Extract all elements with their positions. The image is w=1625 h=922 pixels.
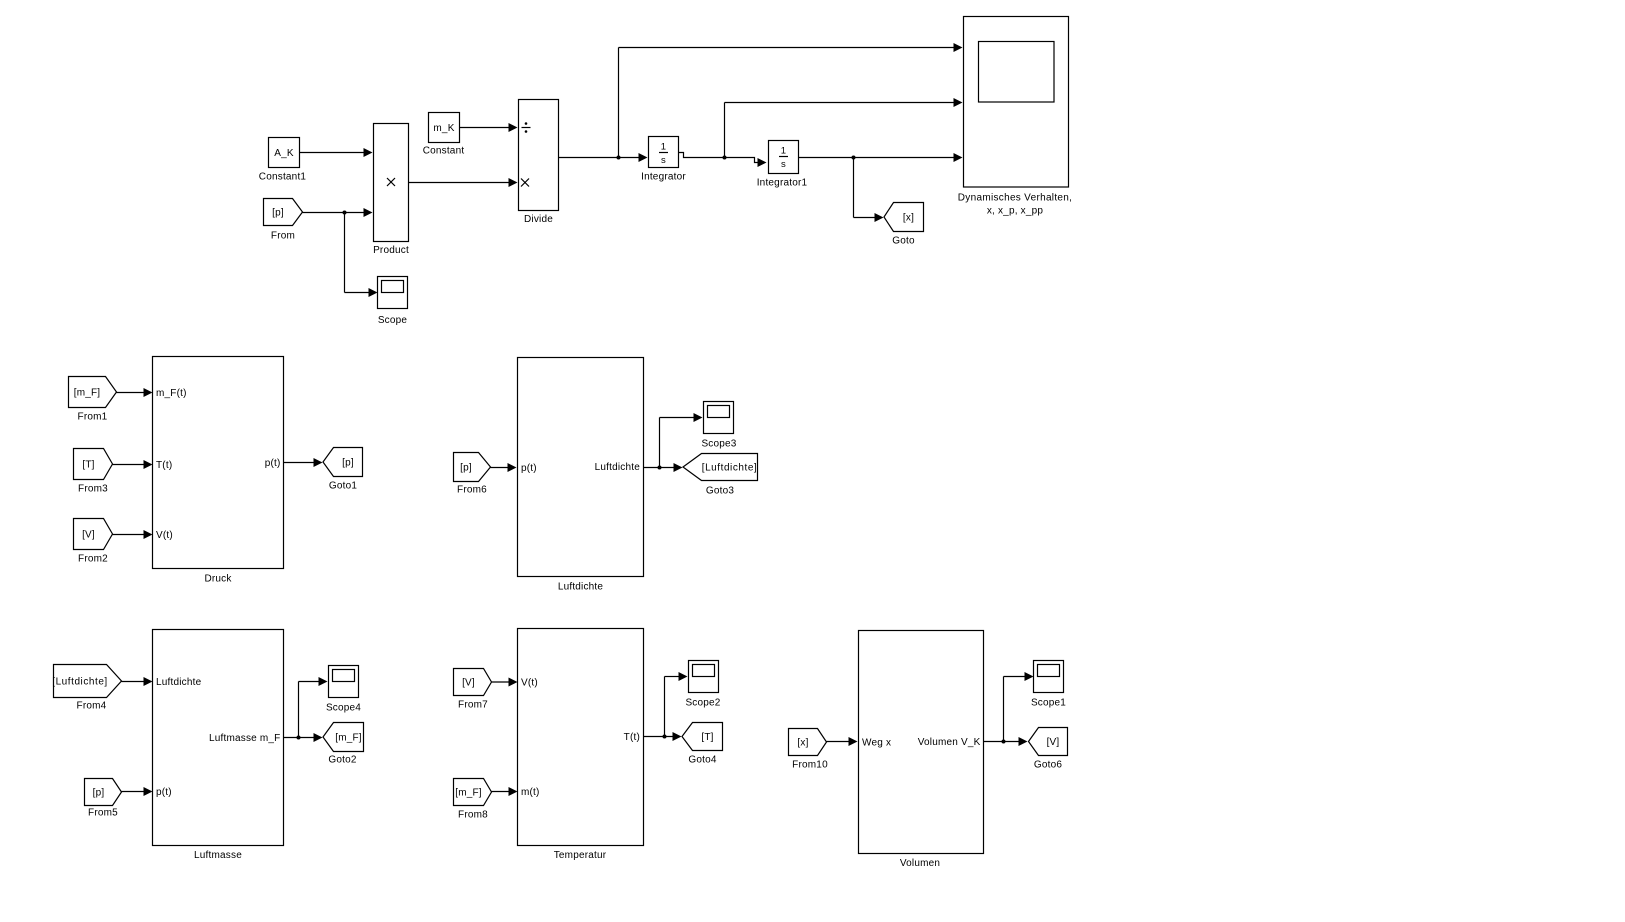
- svg-text:From6: From6: [457, 485, 487, 496]
- Scope block Scope1: [1031, 661, 1066, 709]
- wire From5 to Luftmasse p(t): [122, 787, 153, 796]
- svg-text:Luftmasse: Luftmasse: [194, 850, 242, 861]
- svg-text:[Luftdichte]: [Luftdichte]: [702, 463, 758, 474]
- svg-text:[p]: [p]: [272, 208, 284, 219]
- Integrator1 block (1/s): [757, 141, 808, 189]
- wire Constant1 to Product input 1: [300, 148, 373, 157]
- Product block: [373, 124, 409, 257]
- svg-text:m_K: m_K: [433, 123, 454, 134]
- junction after Integrator: [723, 156, 727, 160]
- svg-text:Constant1: Constant1: [259, 172, 307, 183]
- wire From4 to Luftmasse Luftdichte: [122, 677, 153, 686]
- Integrator block (1/s): [641, 137, 686, 183]
- svg-text:p(t): p(t): [521, 463, 537, 474]
- Goto tag Goto2 ([m_F]): [323, 723, 364, 766]
- From tag From2 ([V]): [74, 519, 113, 565]
- Scope block Scope4: [326, 666, 361, 714]
- Goto tag Goto6 ([V]): [1029, 728, 1068, 771]
- svg-text:s: s: [661, 155, 666, 166]
- svg-text:Luftdichte: Luftdichte: [558, 582, 604, 593]
- svg-text:[m_F]: [m_F]: [335, 733, 362, 744]
- wire junction up to Scope1: [1004, 672, 1034, 742]
- svg-text:Luftdichte: Luftdichte: [595, 462, 641, 473]
- From tag From3 ([T]): [74, 449, 113, 495]
- svg-text:Goto6: Goto6: [1034, 760, 1062, 771]
- svg-text:Weg x: Weg x: [862, 738, 891, 749]
- svg-text:[x]: [x]: [903, 213, 914, 224]
- svg-text:[p]: [p]: [93, 788, 105, 799]
- svg-text:[T]: [T]: [82, 460, 94, 471]
- svg-text:From3: From3: [78, 484, 108, 495]
- Goto tag Goto1 ([p]): [323, 448, 363, 492]
- big Scope block Dynamisches Verhalten: [958, 17, 1072, 217]
- svg-text:m(t): m(t): [521, 787, 540, 798]
- junction after Volumen: [1002, 740, 1006, 744]
- svg-text:Goto2: Goto2: [328, 755, 356, 766]
- Constant1 block (A_K): [259, 138, 307, 183]
- junction after Divide: [617, 156, 621, 160]
- subsystem block Druck: [153, 357, 284, 585]
- svg-text:Volumen V_K: Volumen V_K: [918, 737, 981, 748]
- svg-text:[T]: [T]: [701, 732, 713, 743]
- wire junction up to Scope3: [660, 413, 703, 468]
- subsystem block Volumen: [859, 631, 984, 870]
- Goto tag Goto ([x]): [884, 203, 924, 247]
- svg-text:From1: From1: [78, 412, 108, 423]
- wire From2 to Druck V(t): [113, 530, 153, 539]
- wire From8 to Temperatur m(t): [492, 787, 518, 796]
- wire From10 to Volumen Weg x: [827, 737, 858, 746]
- svg-text:[p]: [p]: [342, 458, 354, 469]
- svg-text:p(t): p(t): [265, 458, 281, 469]
- junction after Luftmasse: [297, 736, 301, 740]
- From tag From4 ([Luftdichte]): [52, 665, 121, 712]
- wire junction down to Goto: [854, 158, 884, 223]
- svg-text:From5: From5: [88, 808, 118, 819]
- svg-text:s: s: [781, 159, 786, 170]
- wire junction up to Scope4: [299, 677, 328, 738]
- Goto tag Goto4 ([T]): [682, 723, 723, 766]
- Constant block (m_K): [423, 113, 465, 157]
- svg-text:Scope4: Scope4: [326, 703, 361, 714]
- svg-text:Dynamisches Verhalten,: Dynamisches Verhalten,: [958, 193, 1072, 204]
- svg-text:Integrator: Integrator: [641, 172, 686, 183]
- wire Temperatur output to Goto4: [644, 732, 682, 741]
- svg-text:Luftmasse m_F: Luftmasse m_F: [209, 733, 281, 744]
- Scope block Scope: [378, 277, 408, 327]
- svg-text:[V]: [V]: [82, 530, 95, 541]
- svg-text:From: From: [271, 231, 295, 242]
- svg-text:Scope3: Scope3: [701, 439, 736, 450]
- Scope block Scope3: [701, 402, 736, 450]
- svg-text:[V]: [V]: [1047, 737, 1060, 748]
- wire Luftmasse output to Goto2: [284, 733, 323, 742]
- From tag From8 ([m_F]): [454, 779, 492, 821]
- svg-text:From7: From7: [458, 700, 488, 711]
- From tag From ([p]): [264, 199, 303, 242]
- wire From1 to Druck m_F(t): [117, 388, 153, 397]
- From tag From5 ([p]): [85, 779, 122, 819]
- Divide block: [519, 100, 559, 226]
- svg-text:[p]: [p]: [460, 463, 472, 474]
- subsystem block Luftdichte: [518, 358, 644, 593]
- svg-text:Druck: Druck: [204, 574, 232, 585]
- junction after Luftdichte: [658, 466, 662, 470]
- svg-text:p(t): p(t): [156, 787, 172, 798]
- svg-text:Goto: Goto: [892, 236, 915, 247]
- wire Integrator output to Integrator1: [679, 153, 767, 168]
- svg-text:Luftdichte: Luftdichte: [156, 677, 202, 688]
- wire From [p] to Product input 2: [303, 208, 373, 217]
- svg-text:Scope2: Scope2: [685, 698, 720, 709]
- wire From7 to Temperatur V(t): [492, 678, 518, 687]
- svg-text:Temperatur: Temperatur: [554, 850, 607, 861]
- svg-text:From8: From8: [458, 810, 488, 821]
- junction after Integrator1: [852, 156, 856, 160]
- svg-text:Goto1: Goto1: [329, 481, 357, 492]
- Scope block Scope2: [685, 661, 720, 709]
- wire Product output to Divide input: [409, 178, 518, 187]
- svg-text:Integrator1: Integrator1: [757, 178, 808, 189]
- svg-text:From4: From4: [77, 701, 107, 712]
- svg-text:Volumen: Volumen: [900, 858, 940, 869]
- svg-text:Goto4: Goto4: [688, 755, 716, 766]
- svg-text:[x]: [x]: [797, 738, 808, 749]
- subsystem block Temperatur: [518, 629, 644, 862]
- wire junction up to big scope input 2: [725, 98, 963, 158]
- svg-text:[m_F]: [m_F]: [455, 788, 482, 799]
- svg-text:m_F(t): m_F(t): [156, 388, 187, 399]
- wire Druck p(t) to Goto1: [284, 458, 323, 467]
- svg-text:Scope1: Scope1: [1031, 698, 1066, 709]
- svg-text:T(t): T(t): [624, 732, 640, 743]
- wire From6 to Luftdichte p(t): [491, 463, 517, 472]
- svg-text:1: 1: [661, 142, 666, 153]
- svg-text:V(t): V(t): [521, 678, 538, 689]
- svg-text:[V]: [V]: [462, 678, 475, 689]
- svg-text:Constant: Constant: [423, 146, 465, 157]
- svg-text:Divide: Divide: [524, 214, 553, 225]
- junction after Temperatur: [663, 735, 667, 739]
- wire Integrator1 output to big scope input 3: [799, 153, 963, 162]
- subsystem block Luftmasse: [153, 630, 284, 862]
- wire Divide output to Integrator: [559, 153, 648, 162]
- svg-text:[Luftdichte]: [Luftdichte]: [52, 677, 108, 688]
- svg-text:[m_F]: [m_F]: [74, 388, 101, 399]
- From tag From10 ([x]): [789, 729, 829, 771]
- svg-text:Product: Product: [373, 245, 409, 256]
- svg-text:A_K: A_K: [274, 148, 294, 159]
- Goto tag Goto3 ([Luftdichte]): [683, 454, 758, 497]
- svg-text:V(t): V(t): [156, 530, 173, 541]
- From tag From7 ([V]): [454, 669, 492, 711]
- wire junction up to big scope input 1: [619, 43, 963, 158]
- wire Constant to Divide divisor input: [460, 123, 518, 132]
- svg-text:x, x_p, x_pp: x, x_p, x_pp: [987, 205, 1044, 216]
- wire From3 to Druck T(t): [113, 460, 153, 469]
- wire junction up to Scope2: [665, 672, 688, 737]
- svg-text:From2: From2: [78, 554, 108, 565]
- svg-text:From10: From10: [792, 760, 828, 771]
- svg-text:T(t): T(t): [156, 460, 172, 471]
- From tag From6 ([p]): [454, 453, 491, 496]
- wire junction down to Scope: [345, 213, 378, 298]
- svg-text:Goto3: Goto3: [706, 486, 734, 497]
- svg-text:Scope: Scope: [378, 315, 408, 326]
- wire Luftdichte output to Goto3: [644, 463, 683, 472]
- From tag From1 ([m_F]): [69, 377, 117, 423]
- junction on [p] wire: [343, 211, 347, 215]
- wire Volumen output to Goto6: [984, 737, 1028, 746]
- svg-text:1: 1: [781, 146, 786, 157]
